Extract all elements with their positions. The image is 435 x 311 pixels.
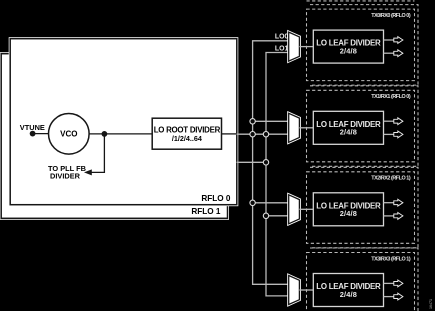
bus LO0 (vertical) xyxy=(253,41,289,284)
svg-text:RFLO 0: RFLO 0 xyxy=(201,194,231,203)
junction RFLO1 out / bus LO1 xyxy=(263,160,268,165)
wire root divider to box edge xyxy=(222,133,237,135)
wire bus LO0 to mux3 top input xyxy=(253,202,289,204)
output arrow 2b xyxy=(394,131,403,138)
channel block 1: front dashed box xyxy=(307,9,415,81)
svg-text:2/4/8: 2/4/8 xyxy=(340,128,357,137)
mux 4 xyxy=(289,276,300,305)
wire mux 4 to leaf divider xyxy=(299,289,313,291)
junction node xyxy=(102,131,108,137)
svg-text:LO1: LO1 xyxy=(275,45,289,52)
LO root divider box xyxy=(152,118,221,149)
channel block 4: front dashed box xyxy=(307,253,415,311)
output arrow 1b xyxy=(394,50,403,57)
wire VCO to LO root divider xyxy=(89,133,152,135)
output wire 3b xyxy=(384,215,395,217)
svg-text:TX1/RX1 (RFLO 0): TX1/RX1 (RFLO 0) xyxy=(371,94,411,100)
svg-text:/1/2/4..64: /1/2/4..64 xyxy=(172,134,202,143)
svg-text:DIVIDER: DIVIDER xyxy=(50,171,81,180)
junction RFLO0 out / bus LO0 xyxy=(250,132,255,137)
wire RFLO0 output to mux 2 (LO0 feed) xyxy=(237,133,289,135)
channel block 4: outer dashed box xyxy=(310,248,418,311)
wire bus LO0 to mux2 top input xyxy=(253,120,289,122)
svg-text:16471: 16471 xyxy=(429,299,433,309)
channel block 2: front dashed box xyxy=(307,90,415,162)
svg-text:2/4/8: 2/4/8 xyxy=(340,46,357,55)
channel block 3: outer dashed box xyxy=(310,167,418,248)
output arrow 4b xyxy=(394,293,403,300)
svg-text:TX2/RX2 (RFLO 1): TX2/RX2 (RFLO 1) xyxy=(371,176,411,182)
svg-text:VCO: VCO xyxy=(60,130,77,139)
output arrow 4a xyxy=(394,280,403,287)
wire mux 3 to leaf divider xyxy=(299,208,313,210)
output wire 1a xyxy=(384,39,395,41)
channel block 2: outer dashed box xyxy=(310,86,418,167)
arrowhead to PLL FB divider xyxy=(84,169,92,175)
wire RFLO1 output to LO1 bus xyxy=(237,161,266,163)
output wire 1b xyxy=(384,52,395,54)
output wire 2b xyxy=(384,133,395,135)
mux 3 xyxy=(289,195,300,224)
cropped dashed block edge (top) xyxy=(307,0,415,2)
wire VTUNE to VCO xyxy=(33,133,49,135)
channel block 1: outer dashed box xyxy=(310,5,418,86)
junction bus LO1 / mux3 bottom xyxy=(263,213,268,218)
VTUNE node dot xyxy=(30,131,36,137)
RFLO 1 synthesizer box xyxy=(1,54,227,219)
wire to PLL FB divider xyxy=(91,134,105,173)
LO leaf divider box 4 xyxy=(313,274,383,307)
output arrow 3a xyxy=(394,199,403,206)
channel block 3: front dashed box xyxy=(307,172,415,244)
svg-text:LO0: LO0 xyxy=(275,34,289,41)
svg-text:TX0/RX0 (RFLO 0): TX0/RX0 (RFLO 0) xyxy=(371,13,411,19)
output arrow 3b xyxy=(394,213,403,220)
RFLO 0 synthesizer box xyxy=(10,39,237,205)
svg-text:VTUNE: VTUNE xyxy=(20,123,45,132)
output wire 4b xyxy=(384,296,395,298)
mux 2 xyxy=(289,113,300,142)
svg-text:RFLO 1: RFLO 1 xyxy=(191,207,221,216)
svg-text:TX3/RX3 (RFLO 1): TX3/RX3 (RFLO 1) xyxy=(371,256,411,262)
output wire 2a xyxy=(384,120,395,122)
LO leaf divider box 2 xyxy=(313,111,383,144)
wire mux 2 to leaf divider xyxy=(299,127,313,129)
output wire 4a xyxy=(384,282,395,284)
wire bus LO1 to mux3 bottom input xyxy=(266,215,289,217)
junction bus LO0 / mux3 top xyxy=(250,200,255,205)
output wire 3a xyxy=(384,202,395,204)
LO leaf divider box 1 xyxy=(313,30,383,63)
junction bus LO1 / mux2 bottom xyxy=(263,132,268,137)
svg-text:2/4/8: 2/4/8 xyxy=(340,209,357,218)
junction bus LO0 / mux2 top xyxy=(250,119,255,124)
VCO circle xyxy=(49,114,90,155)
output arrow 1a xyxy=(394,37,403,44)
svg-text:2/4/8: 2/4/8 xyxy=(340,290,357,299)
wire mux 1 to leaf divider xyxy=(299,46,313,48)
bus LO1 (vertical) xyxy=(266,53,289,296)
output arrow 2a xyxy=(394,118,403,125)
LO leaf divider box 3 xyxy=(313,193,383,226)
mux 1 xyxy=(289,32,300,61)
